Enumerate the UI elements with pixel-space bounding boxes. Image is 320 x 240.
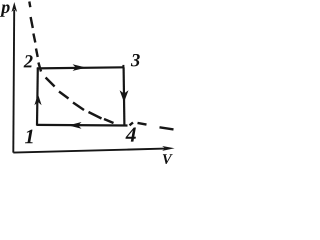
arrowhead left on 4-1	[68, 122, 81, 129]
V axis	[13, 146, 174, 153]
node label 2	[24, 55, 33, 67]
node label 1	[25, 130, 33, 144]
arrowhead down on 3-4	[120, 90, 129, 102]
node label 3	[131, 54, 140, 66]
p axis	[12, 2, 18, 153]
dashed isotherm through 2 and 4	[29, 2, 173, 130]
V axis label	[163, 154, 173, 164]
p axis label	[0, 4, 10, 16]
arrowhead up on 1-2	[34, 94, 41, 105]
wire: process 3-4 (right edge)	[122, 67, 125, 125]
wire: process 1-2 (left edge)	[36, 68, 39, 125]
wire: process 4-1 (bottom edge)	[37, 124, 128, 127]
stub above node 3	[122, 65, 124, 68]
wire: process 2-3 (top edge)	[37, 67, 124, 68]
arrowhead right on 2-3	[73, 64, 87, 71]
node label 4	[125, 127, 135, 141]
